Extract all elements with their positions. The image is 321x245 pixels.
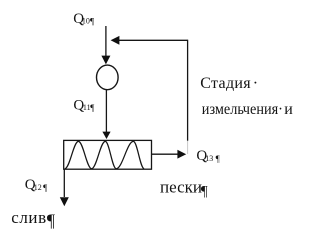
wire recycle vertical: [187, 40, 189, 141]
svg-text:слив: слив: [11, 208, 47, 227]
mill circle: [97, 65, 119, 90]
wire Q12 overflow down: [63, 169, 65, 197]
svg-text:Стадия·: Стадия·: [200, 75, 258, 92]
wire feed Q10 vertical: [105, 26, 107, 57]
wire Q11 mill to classifier: [105, 90, 107, 133]
svg-text:и: и: [284, 101, 293, 118]
wire Q13 sands out: [152, 153, 178, 155]
svg-text:Q13¶: Q13¶: [196, 148, 219, 164]
arrowhead Q13: [177, 150, 186, 159]
svg-text:Q11¶: Q11¶: [73, 97, 94, 113]
svg-text:¶: ¶: [47, 211, 55, 231]
arrowhead into classifier: [102, 132, 110, 139]
classifier wave: [65, 141, 144, 168]
svg-text:пески: пески: [160, 177, 202, 196]
svg-text:Q10¶: Q10¶: [73, 11, 94, 27]
svg-text:Q12¶: Q12¶: [25, 177, 47, 193]
classifier rect: [64, 140, 152, 169]
wire recycle faint stub: [187, 141, 189, 154]
arrowhead Q12: [60, 197, 69, 206]
arrowhead recycle into feed: [111, 36, 120, 45]
svg-text:измельчения·: измельчения·: [202, 100, 283, 118]
arrowhead feed into mill: [101, 56, 110, 65]
wire recycle horizontal: [119, 39, 188, 41]
svg-text:¶: ¶: [201, 183, 208, 199]
